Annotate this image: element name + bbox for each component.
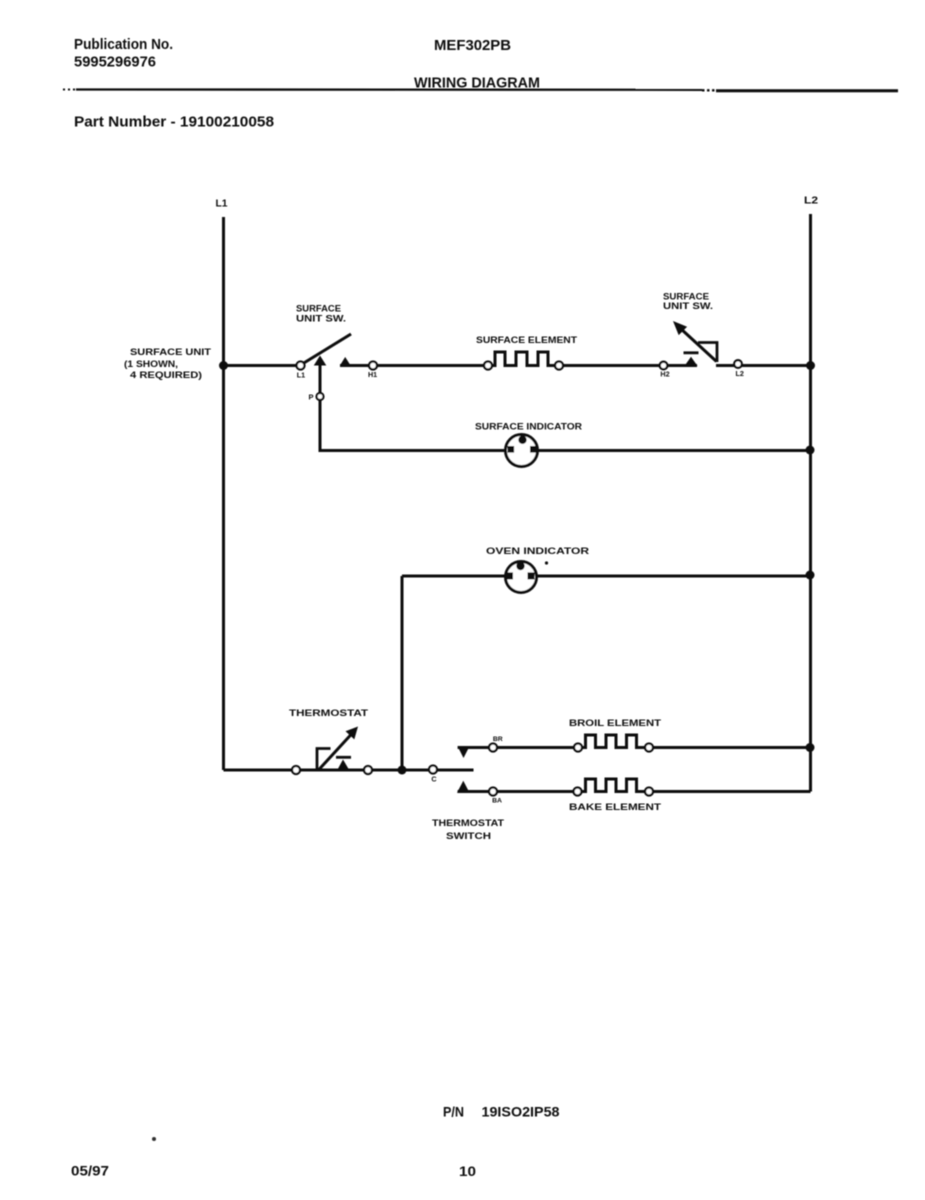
svg-text:SWITCH: SWITCH (446, 831, 491, 841)
svg-text:Part Number - 19100210058: Part Number - 19100210058 (74, 114, 274, 131)
svg-text:BR: BR (493, 736, 503, 743)
svg-text:(1 SHOWN,: (1 SHOWN, (124, 359, 178, 369)
svg-text:UNIT SW.: UNIT SW. (663, 301, 713, 311)
svg-text:H1: H1 (368, 370, 377, 379)
svg-text:SURFACE INDICATOR: SURFACE INDICATOR (475, 422, 582, 432)
svg-text:P/N: P/N (443, 1104, 464, 1120)
svg-text:H2: H2 (660, 370, 669, 379)
svg-text:SURFACE: SURFACE (296, 304, 341, 314)
svg-text:THERMOSTAT: THERMOSTAT (432, 818, 504, 828)
svg-text:SURFACE UNIT: SURFACE UNIT (130, 347, 211, 357)
svg-text:OVEN INDICATOR: OVEN INDICATOR (486, 546, 589, 556)
svg-text:THERMOSTAT: THERMOSTAT (289, 708, 368, 718)
svg-text:L1: L1 (216, 199, 228, 210)
svg-text:SURFACE ELEMENT: SURFACE ELEMENT (476, 335, 577, 345)
svg-text:P: P (308, 393, 313, 402)
svg-text:MEF302PB: MEF302PB (434, 37, 511, 54)
svg-text:05/97: 05/97 (71, 1163, 109, 1179)
svg-text:L2: L2 (736, 369, 744, 378)
svg-text:L2: L2 (804, 196, 819, 207)
svg-text:4 REQUIRED): 4 REQUIRED) (130, 370, 202, 380)
svg-text:Publication No.: Publication No. (74, 36, 173, 53)
svg-text:L1: L1 (297, 371, 305, 380)
svg-text:19ISO2IP58: 19ISO2IP58 (482, 1104, 560, 1120)
svg-text:5995296976: 5995296976 (74, 54, 156, 71)
svg-text:SURFACE: SURFACE (663, 292, 709, 302)
svg-text:UNIT SW.: UNIT SW. (296, 314, 346, 324)
svg-text:BA: BA (492, 798, 502, 805)
svg-text:C: C (431, 775, 436, 784)
svg-text:BROIL ELEMENT: BROIL ELEMENT (569, 718, 661, 728)
svg-text:BAKE ELEMENT: BAKE ELEMENT (569, 802, 661, 812)
svg-text:10: 10 (459, 1163, 476, 1179)
